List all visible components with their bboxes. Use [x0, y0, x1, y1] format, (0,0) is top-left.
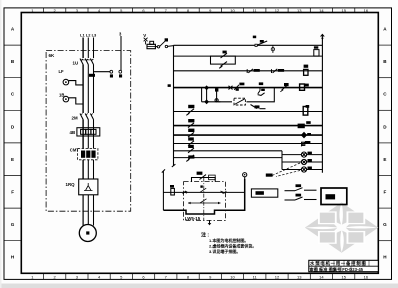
- svg-text:L2: L2: [86, 33, 91, 38]
- svg-text:A: A: [11, 27, 15, 32]
- fuse FU1 box: [147, 44, 155, 48]
- svg-text:B: B: [383, 59, 387, 64]
- selector row1 left arrow: [184, 191, 187, 193]
- rung1 switch S1: [255, 40, 267, 46]
- lamp row 2 wire: [282, 161, 322, 163]
- right zone dividers: [378, 45, 391, 241]
- selector row1 contact: [185, 185, 223, 192]
- bus left vertical: [173, 45, 175, 165]
- wire to bus L: [168, 45, 174, 48]
- terminal X1 labels: [110, 74, 113, 77]
- terminal wire to X1: [94, 71, 111, 73]
- wire phase A mid1: [82, 65, 84, 114]
- svg-text:E: E: [383, 157, 386, 162]
- rung9 symbol: [301, 141, 310, 146]
- svg-text:6K: 6K: [49, 53, 56, 58]
- rung3 contact B2: [272, 69, 285, 73]
- plug node P1 top diamond: [204, 85, 209, 90]
- rung 1 wire: [174, 44, 323, 46]
- wire motor C: [93, 195, 95, 226]
- svg-text:审图 标准 图集号 FD-D23-45: 审图 标准 图集号 FD-D23-45: [310, 266, 364, 273]
- svg-text:2.虚线框内设备成套供货。: 2.虚线框内设备成套供货。: [209, 243, 256, 249]
- box edge cross right: [223, 191, 226, 194]
- switch SA1: [157, 38, 168, 48]
- switch SW2 label: [296, 194, 302, 197]
- branch corner wire: [201, 88, 203, 102]
- wire subcircuit feed row: [163, 191, 244, 193]
- reactor element C: [91, 151, 95, 158]
- svg-text:4: 4: [98, 274, 101, 279]
- rung6 coil KA1: [303, 107, 308, 116]
- soft starter RQ1 symbol: [84, 183, 93, 191]
- rung4 coil KM1c: [300, 84, 305, 90]
- legend box LB1 label: [326, 194, 336, 199]
- svg-text:H: H: [11, 255, 15, 260]
- svg-text:11: 11: [253, 274, 258, 279]
- lamp dashed pointer: [272, 163, 300, 177]
- top zone numbers: [31, 8, 369, 13]
- svg-text:G: G: [11, 222, 15, 227]
- wire number label L2: [89, 74, 95, 77]
- svg-text:C: C: [11, 92, 15, 97]
- rung4 contact C2: [258, 82, 265, 95]
- rung7 lamp block: [298, 124, 305, 129]
- fuse FU1 cross: [144, 38, 148, 45]
- bottom zone numbers: [31, 274, 369, 279]
- title block row divider: [309, 265, 379, 267]
- rung11 contact L6: [186, 155, 194, 162]
- svg-text:3: 3: [119, 32, 122, 37]
- svg-text:V: V: [143, 33, 146, 38]
- switch SW1 wire: [285, 188, 317, 191]
- svg-text:16: 16: [364, 274, 369, 279]
- wire phase C mid2: [93, 120, 95, 149]
- svg-text:16: 16: [364, 8, 369, 13]
- bottom zone ticks: [44, 273, 355, 279]
- wire motor A: [82, 195, 84, 226]
- svg-text:A: A: [383, 27, 387, 32]
- terminal stem T1: [243, 173, 247, 180]
- rung2 contact top: [221, 51, 228, 58]
- plug node P2 bottom circle: [215, 99, 220, 102]
- svg-text:9: 9: [209, 274, 212, 279]
- wire phase B: [87, 38, 89, 59]
- svg-text:3: 3: [76, 274, 79, 279]
- wire phase B mid2: [87, 120, 89, 149]
- rung2 contact bottom: [219, 62, 227, 69]
- lamp note label: [266, 174, 273, 177]
- wire motor B: [87, 195, 89, 225]
- fuse FU2 label: [170, 185, 174, 188]
- svg-text:13: 13: [297, 8, 302, 13]
- wire phase A: [82, 38, 84, 59]
- selector bottom stub: [208, 220, 212, 225]
- rung7 contact L2: [188, 119, 194, 128]
- svg-text:C: C: [383, 92, 387, 97]
- breaker QF1: [80, 59, 94, 65]
- CT TA1: [63, 79, 83, 85]
- wire phase C mid3: [93, 160, 95, 179]
- switch SW1 label: [296, 184, 302, 187]
- svg-text:4B: 4B: [70, 130, 76, 135]
- thermal relay FR1 elements: [81, 129, 96, 134]
- svg-text:10: 10: [230, 274, 235, 279]
- rung6 coil KA1 label: [306, 105, 310, 108]
- rung1 tap symbol: [271, 45, 274, 53]
- title block row2 cells: [316, 266, 351, 272]
- left zone dividers: [4, 45, 21, 241]
- wire phase C: [93, 38, 95, 59]
- rung 9 wire: [174, 143, 323, 145]
- selector switch dashed box: [184, 182, 226, 221]
- svg-text:13: 13: [297, 274, 302, 279]
- soft starter RQ1 box: [79, 179, 98, 195]
- rung3 contact B1: [247, 69, 260, 73]
- svg-text:L3: L3: [92, 33, 97, 38]
- svg-text:2M: 2M: [72, 116, 78, 121]
- motor M1: [79, 225, 96, 242]
- svg-text:E: E: [11, 157, 14, 162]
- scanner edge shading: [0, 284, 398, 288]
- rung8 contact L3: [188, 129, 194, 138]
- rung 11 wire: [174, 157, 283, 159]
- title block row1 cells: [319, 260, 369, 266]
- wire phase C mid1: [93, 65, 95, 114]
- svg-text:1.本图为电机控制图。: 1.本图为电机控制图。: [209, 237, 248, 243]
- bus right vertical: [321, 38, 323, 173]
- lamp row 3 wire: [282, 169, 322, 171]
- selector shaft dash-dot: [203, 178, 205, 221]
- watermark logo diamond: [305, 202, 378, 252]
- lamp HL3: [301, 167, 312, 173]
- reactor element A: [81, 151, 85, 158]
- rung 10 wire: [174, 150, 283, 152]
- svg-text:LW5-15: LW5-15: [185, 216, 201, 221]
- wire phase B mid3: [87, 160, 89, 179]
- branch wire right: [216, 88, 218, 102]
- rung5 contact D1: [251, 105, 266, 109]
- svg-text:1U: 1U: [73, 61, 79, 66]
- rung 7 wire bold: [174, 125, 323, 127]
- wire to top label 3: [120, 36, 122, 70]
- fuse FU1 inner: [147, 46, 155, 48]
- rung6 contact L1: [186, 105, 194, 116]
- wire phase A mid2: [82, 120, 84, 149]
- rung9 contact L4: [188, 137, 194, 145]
- subcircuit bottom wire: [163, 179, 244, 214]
- selector top bridge wire: [192, 178, 216, 182]
- rung4 contact C3: [280, 83, 288, 92]
- box edge cross left: [183, 191, 186, 194]
- thermal relay FR1 box: [77, 128, 100, 136]
- rung2 parallel branch box: [211, 56, 236, 64]
- reactor element B: [86, 151, 90, 158]
- rung10 contact L5: [188, 145, 194, 153]
- right zone letters: [383, 27, 387, 260]
- svg-text:6: 6: [142, 274, 145, 279]
- terminal box TB1 label: [256, 191, 264, 195]
- rung 3 wire: [174, 70, 323, 72]
- svg-text:D: D: [11, 124, 15, 129]
- switch SW2 wire: [285, 197, 317, 200]
- branch wire mid: [206, 88, 208, 102]
- rung 2 wire: [174, 55, 323, 57]
- svg-text:10: 10: [230, 8, 235, 13]
- svg-text:7: 7: [165, 274, 168, 279]
- bus bottom end: [172, 164, 176, 167]
- svg-text:12: 12: [275, 8, 280, 13]
- rung1 label dot: [253, 36, 256, 39]
- svg-text:2: 2: [53, 274, 56, 279]
- wire phase B mid1: [87, 65, 89, 114]
- svg-text:5: 5: [120, 274, 123, 279]
- top zone ticks: [44, 8, 355, 13]
- terminal X1 circles: [110, 70, 122, 73]
- svg-text:F: F: [383, 190, 386, 195]
- plug node P1 bottom diamond: [204, 99, 209, 104]
- svg-text:H: H: [383, 255, 387, 260]
- wire source: [155, 46, 157, 48]
- rung8 label: [307, 133, 311, 135]
- rung4 coil label: [305, 84, 309, 87]
- svg-text:D: D: [383, 124, 387, 129]
- continuation mark left: [162, 169, 165, 172]
- rung5 box symbol: [235, 99, 245, 105]
- lamp row 1 wire: [282, 154, 322, 156]
- svg-text:14: 14: [319, 8, 324, 13]
- svg-text:1RQ: 1RQ: [66, 182, 76, 187]
- svg-text:12: 12: [275, 274, 280, 279]
- wire phase A mid3: [82, 160, 84, 179]
- svg-text:3.详见端子排图。: 3.详见端子排图。: [209, 248, 240, 254]
- terminal box TB1: [251, 189, 277, 197]
- rung 4 wire bold: [174, 87, 323, 89]
- svg-text:8: 8: [187, 274, 190, 279]
- rung8 diamond: [301, 132, 307, 139]
- svg-text:15: 15: [341, 8, 346, 13]
- selector row2 left arrow: [188, 202, 191, 204]
- rung4 contact C1: [234, 83, 244, 91]
- lamp feed vertical: [281, 151, 283, 170]
- rung3 coil KT1 label: [304, 65, 309, 68]
- left zone letters: [11, 27, 15, 260]
- CT TA2: [63, 96, 83, 104]
- rung4 mark X: [229, 86, 233, 90]
- svg-text:F: F: [11, 190, 14, 195]
- rung5 wire out: [247, 88, 275, 102]
- meter box: [150, 41, 154, 44]
- rung 5 wire: [202, 101, 232, 103]
- rung7 label: [306, 121, 311, 124]
- rung 8 wire bold: [174, 134, 323, 136]
- svg-text:14: 14: [319, 274, 324, 279]
- enclosure dash-dot box: [46, 51, 131, 212]
- svg-text:LF: LF: [59, 69, 65, 74]
- plug node P2 top square: [215, 88, 218, 91]
- reactor box dashed: [78, 149, 98, 160]
- rung3 coil KT1: [304, 69, 308, 75]
- selector top contact: [197, 172, 216, 180]
- svg-text:L1: L1: [80, 33, 85, 38]
- selector row1 right arrow: [222, 191, 225, 193]
- rung 6 wire: [174, 111, 323, 113]
- bus right top arrow: [321, 34, 325, 39]
- title block frame: [309, 260, 379, 271]
- legend box LB1: [321, 188, 347, 205]
- rung5 dashed box KT: [234, 98, 245, 105]
- selector row2 right arrow: [218, 202, 221, 204]
- rung2 coil K0: [314, 50, 319, 57]
- lamp HL2: [301, 159, 312, 165]
- rung2 coil K0 label: [314, 46, 318, 48]
- svg-text:B: B: [11, 59, 15, 64]
- terminal X2 label: [119, 74, 122, 77]
- wire subcircuit left vertical: [162, 171, 164, 210]
- svg-text:15: 15: [341, 274, 346, 279]
- lamp HL1: [301, 152, 312, 158]
- svg-text:CMT: CMT: [70, 148, 80, 153]
- selector row2 wire: [188, 199, 221, 203]
- rung4 bus label: [168, 84, 171, 87]
- contactor KM1 poles: [80, 114, 94, 120]
- svg-text:1: 1: [31, 274, 34, 279]
- svg-text:G: G: [383, 222, 387, 227]
- fuse FU2: [171, 188, 175, 195]
